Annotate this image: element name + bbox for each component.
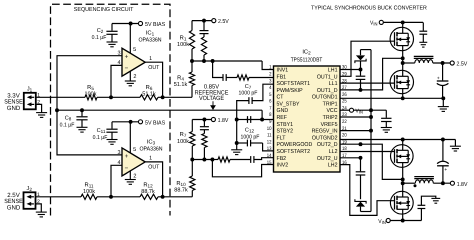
svg-text:OUTGND2: OUTGND2: [312, 135, 338, 141]
wire L2 to 1.8V out: [433, 182, 450, 184]
IC2 pin names: [277, 68, 338, 169]
transistor Q1 high-side ch1: [390, 27, 413, 50]
op-amp IC1 triangle: [122, 48, 145, 76]
capacitor C12 series: [246, 116, 262, 123]
wire pin20 rail ch2: [340, 139, 455, 141]
svg-text:2: 2: [269, 72, 272, 78]
pin 2 ground IC1: [130, 71, 136, 81]
wire IC3 output: [145, 162, 162, 197]
svg-text:C7: C7: [245, 84, 252, 90]
wire FB2 branch: [212, 159, 218, 161]
label R7: [177, 132, 189, 145]
label R11: [83, 182, 95, 195]
svg-text:3: 3: [269, 78, 272, 84]
wire phase1 to L1: [403, 62, 415, 64]
svg-text:STBY2: STBY2: [277, 129, 294, 135]
svg-text:R12: R12: [143, 182, 153, 188]
capacitor C2: [106, 24, 117, 43]
svg-text:13: 13: [267, 146, 272, 152]
capacitor bootstrap ch2: [356, 158, 366, 199]
node bootstrap bottom ch1: [359, 88, 363, 92]
terminal 5V BIAS bottom: [138, 119, 165, 126]
label R1: [177, 35, 189, 48]
wire 1.8V tap: [192, 119, 211, 121]
svg-text:51.1k: 51.1k: [174, 81, 188, 88]
label R6: [142, 85, 156, 98]
wire INV2 route: [212, 160, 273, 177]
label R4: [174, 75, 188, 88]
svg-text:0.1 µF: 0.1 µF: [60, 123, 75, 129]
wire FB1 branch down: [213, 61, 223, 78]
svg-text:VREF5: VREF5: [321, 122, 338, 128]
resistor R12: [140, 194, 158, 199]
svg-text:TYPICAL SYNCHRONOUS BUCK CONVE: TYPICAL SYNCHRONOUS BUCK CONVERTER: [311, 6, 427, 12]
svg-text:22: 22: [342, 119, 347, 125]
ground rail ch2: [450, 140, 461, 152]
svg-text:R11: R11: [85, 182, 94, 188]
svg-text:5V_STBY: 5V_STBY: [277, 102, 300, 108]
svg-text:5V BIAS: 5V BIAS: [145, 119, 165, 126]
node stray L2: [414, 184, 417, 187]
terminal 2.5V tap: [212, 18, 229, 25]
node RC branch 2 top: [202, 118, 206, 122]
RC branch resistor top: [201, 37, 206, 61]
ground J2: [36, 212, 47, 217]
svg-text:88.7k: 88.7k: [141, 188, 155, 195]
svg-text:VIN: VIN: [356, 108, 363, 114]
svg-text:GND: GND: [7, 204, 21, 211]
svg-text:OUTGND1: OUTGND1: [312, 95, 338, 101]
svg-text:1: 1: [149, 56, 152, 62]
wire divider node 2: [192, 159, 212, 161]
svg-text:OPA336N: OPA336N: [138, 37, 161, 44]
svg-text:TRIP2: TRIP2: [323, 115, 338, 121]
node REG5V_IN: [369, 129, 373, 133]
IC2 pin numbers: [267, 65, 347, 166]
label IC3: [139, 139, 162, 153]
svg-text:OPA336N: OPA336N: [139, 146, 162, 153]
svg-text:CT: CT: [277, 95, 284, 101]
terminal 1.8V tap: [211, 117, 228, 124]
wire 5V bias rail IC3: [112, 121, 138, 123]
svg-text:8: 8: [269, 112, 272, 118]
node bootstrap top ch1: [359, 68, 363, 72]
capacitor bootstrap ch1: [356, 70, 366, 90]
ground output ch1: [438, 98, 449, 111]
wire V_IN top rail: [384, 21, 423, 23]
terminal V_IN top: [370, 20, 383, 26]
label TYPICAL SYNCHRONOUS BUCK CONVERTER: [311, 6, 427, 12]
wire Q3 source: [402, 167, 404, 179]
label R12: [141, 182, 155, 195]
svg-text:FB2: FB2: [277, 156, 287, 162]
svg-text:7: 7: [269, 105, 272, 111]
diode D2 schottky: [355, 199, 366, 211]
svg-text:100k: 100k: [177, 138, 189, 145]
pin label 3 IC1: [117, 51, 120, 57]
svg-text:INV1: INV1: [277, 68, 289, 74]
label IC1: [138, 30, 161, 44]
capacitor FB2 series: [251, 156, 254, 163]
node pin5 IC1: [129, 22, 133, 26]
transistor Q4 high-side ch2: [390, 191, 413, 214]
svg-text:SEQUENCING CIRCUIT: SEQUENCING CIRCUIT: [74, 7, 134, 13]
wire Q2 drain: [402, 63, 404, 70]
svg-text:0.1 µF: 0.1 µF: [93, 135, 108, 141]
terminal V_IN bottom: [378, 218, 390, 225]
svg-text:J2: J2: [27, 186, 33, 192]
svg-text:+: +: [125, 53, 129, 60]
wire FB1 cap to resistor: [226, 77, 237, 79]
wire 2.5V tap: [192, 20, 212, 22]
node Q1 drain: [401, 20, 405, 24]
wire gnd node column: [236, 120, 238, 150]
svg-text:OUT: OUT: [148, 65, 160, 71]
svg-text:6: 6: [269, 99, 272, 105]
wire pin18 LL2 to Q3 gate: [340, 151, 395, 153]
pin 2 ground IC3: [130, 171, 136, 180]
wire IC1 output: [145, 62, 162, 97]
resistor R5: [85, 95, 97, 100]
terminal 1.8V out: [450, 181, 467, 188]
ground C8: [77, 127, 88, 132]
wire 0.85V reference rail: [57, 109, 262, 111]
IC U2 TPS51120DBT body: [274, 66, 341, 172]
pin label 3 IC3: [117, 150, 120, 156]
pin24 VCC terminal: [340, 108, 363, 114]
wire pin16 LH2 gate route: [340, 165, 395, 216]
capacitor V_IN ch2: [418, 196, 436, 220]
svg-text:100k: 100k: [177, 41, 189, 48]
node RC branch bottom: [202, 59, 206, 63]
wire pin17 OUT2_U: [340, 157, 361, 159]
svg-text:OUT1_U: OUT1_U: [317, 74, 338, 80]
wire R11 to R12: [97, 196, 140, 198]
wire phase2 to L2: [403, 182, 416, 184]
node VCC REG5V junction: [369, 108, 373, 112]
wire L1 to 2.5V out: [433, 62, 450, 64]
svg-text:OUT: OUT: [148, 165, 160, 171]
node phase2 a: [401, 177, 405, 181]
svg-text:51.1k: 51.1k: [142, 91, 156, 98]
wire Q4 drain: [402, 214, 404, 220]
svg-text:R7: R7: [180, 132, 187, 138]
svg-text:4: 4: [269, 85, 272, 91]
svg-text:VOLTAGE: VOLTAGE: [199, 95, 224, 102]
svg-text:1: 1: [269, 65, 272, 71]
svg-text:VIN: VIN: [378, 219, 385, 225]
svg-text:5: 5: [269, 92, 272, 98]
node TRIP2 REG5V: [369, 115, 373, 119]
svg-text:2.5V: 2.5V: [218, 18, 229, 25]
wire 5V bias rail IC1: [112, 23, 138, 25]
ground V_IN cap ch2: [431, 198, 440, 203]
node Q2 source gnd: [401, 96, 405, 100]
label C8: [60, 116, 75, 129]
svg-text:REF: REF: [277, 115, 288, 121]
wire pin26 ground line: [340, 97, 443, 99]
node C8 junction: [80, 108, 84, 112]
wire VCC to bypass cap: [354, 109, 387, 111]
wire Q4 source: [402, 183, 404, 191]
resistor FB1 series: [237, 75, 249, 80]
svg-text:J1: J1: [27, 87, 33, 93]
svg-text:SOFTSTART2: SOFTSTART2: [277, 149, 311, 155]
resistor R7: [190, 120, 195, 160]
svg-text:0.1 µF: 0.1 µF: [92, 35, 107, 41]
wire ref jog to pin8: [262, 110, 273, 119]
connector J2: [24, 186, 41, 209]
node output cap ch2: [441, 181, 445, 185]
ground IC3: [125, 180, 136, 185]
wire J2 pin1 to R11: [36, 196, 82, 198]
label C11: [93, 128, 108, 141]
svg-text:+: +: [437, 77, 440, 82]
svg-text:11: 11: [267, 133, 272, 139]
node phase1 b: [401, 61, 405, 65]
wire pin19 phase2 route: [340, 144, 403, 179]
label 3.3V SENSE GND: [4, 93, 23, 112]
svg-text:GND: GND: [7, 105, 21, 112]
ground reference caps: [231, 150, 242, 155]
wire J2 pin2 to ground: [36, 204, 42, 212]
op-amp IC3 triangle: [122, 148, 145, 176]
wire D1 anode to REG5V rail: [361, 49, 372, 51]
svg-text:C12: C12: [245, 128, 255, 134]
wire FB2 res to cap: [230, 159, 250, 161]
terminal 5V BIAS top: [138, 21, 165, 28]
connector J1: [24, 87, 41, 110]
wire R5 to R6: [97, 96, 140, 98]
svg-text:20: 20: [342, 133, 347, 139]
svg-text:TRIP1: TRIP1: [323, 102, 338, 108]
svg-text:5V BIAS: 5V BIAS: [145, 21, 165, 28]
svg-text:100k: 100k: [83, 188, 95, 195]
wire FB1 to pin2: [249, 77, 274, 79]
node Q4 drain: [401, 219, 405, 223]
svg-text:INV2: INV2: [277, 163, 289, 169]
label R10: [174, 181, 188, 194]
ground C2: [107, 42, 118, 47]
pin label 1 OUT IC3: [148, 156, 160, 171]
svg-text:C8: C8: [65, 116, 72, 122]
svg-text:R6: R6: [146, 85, 153, 91]
svg-text:TPS51120DBT: TPS51120DBT: [291, 57, 323, 64]
ground IC1: [125, 81, 136, 86]
node RC branch top: [202, 19, 206, 23]
wire SOFTSTART1 jog: [252, 84, 273, 100]
node phase2 b: [401, 181, 405, 185]
node FB1 branch: [211, 59, 215, 63]
wire FB2 to pin14: [254, 158, 274, 160]
node outcap gnd ch1: [441, 96, 445, 100]
ground VCC bypass: [381, 128, 392, 133]
svg-text:25: 25: [342, 99, 347, 105]
label IC2: [291, 49, 323, 64]
node C7 C12 junction: [235, 118, 239, 122]
wire IC3 noninverting input: [57, 110, 122, 155]
node boot ch2 on pin19: [359, 142, 363, 146]
label SEQUENCING CIRCUIT: [74, 7, 134, 13]
capacitor C8: [76, 110, 87, 127]
svg-text:C11: C11: [97, 128, 106, 134]
label C2: [92, 28, 107, 41]
RC branch capacitor top: [200, 21, 209, 37]
label 2.5V SENSE GND: [4, 192, 23, 211]
wire IC1 noninverting input: [57, 56, 122, 110]
svg-text:OUT2_D: OUT2_D: [317, 142, 338, 148]
wire R12 to R10 bottom: [158, 196, 192, 198]
wire IC3 inverting input: [111, 165, 122, 197]
svg-text:VCC: VCC: [326, 108, 337, 114]
svg-text:2: 2: [133, 74, 136, 80]
node RC branch 2 bottom: [202, 158, 206, 162]
RC branch capacitor bottom: [200, 120, 209, 134]
node outcap rail ch2: [441, 138, 445, 142]
svg-text:26: 26: [342, 92, 347, 98]
svg-text:R10: R10: [176, 181, 186, 187]
resistor R10: [190, 160, 195, 197]
inductor L1: [414, 56, 434, 63]
svg-text:1.8V: 1.8V: [218, 117, 229, 124]
node Q3 drain rail: [401, 138, 405, 142]
wire REG5V vertical rail: [370, 50, 372, 212]
pin 5 supply IC1: [130, 24, 136, 54]
svg-text:1: 1: [149, 156, 152, 162]
svg-text:LL2: LL2: [329, 149, 338, 155]
wire Q2 source: [402, 94, 404, 99]
wire Q3 drain to rail: [402, 140, 404, 145]
svg-text:LH2: LH2: [328, 163, 338, 169]
label 0.85V REFERENCE VOLTAGE: [195, 84, 229, 102]
transistor Q2 low-side ch1: [390, 70, 413, 93]
svg-text:12: 12: [267, 139, 272, 145]
wire C7 left leg: [237, 101, 249, 120]
wire R6 to R4 bottom: [158, 96, 192, 98]
svg-text:GND: GND: [277, 108, 289, 114]
wire pin28 LL1 to Q2 gate: [340, 82, 395, 84]
resistor R11: [81, 194, 97, 199]
wire C12 to gnd node: [237, 119, 248, 121]
wire D2 anode to REG5V rail: [361, 211, 372, 213]
ground J1: [36, 113, 47, 118]
wire pin29 gate route: [340, 41, 395, 76]
pin label 4 IC3: [117, 160, 120, 166]
capacitor FB1 series: [223, 74, 226, 81]
resistor R4: [189, 61, 194, 97]
svg-text:88.7k: 88.7k: [174, 186, 188, 193]
wire pin27 phase route: [340, 58, 403, 90]
diode D1 schottky: [355, 50, 366, 70]
ground V_IN cap ch1: [419, 42, 427, 47]
svg-text:R4: R4: [177, 75, 184, 81]
svg-text:FLT: FLT: [277, 135, 286, 141]
pin 5 supply IC3: [130, 122, 136, 153]
RC branch resistor bottom: [202, 134, 207, 160]
resistor FB2 series: [218, 157, 230, 162]
svg-text:9: 9: [269, 119, 272, 125]
inductor L2: [414, 177, 434, 184]
capacitor VCC bypass: [381, 110, 391, 127]
svg-text:OUT2_U: OUT2_U: [317, 156, 338, 162]
svg-text:2: 2: [133, 174, 136, 180]
svg-text:SOFTSTART1: SOFTSTART1: [277, 81, 311, 87]
svg-text:15: 15: [267, 160, 272, 166]
node divider R1 R4: [190, 59, 194, 63]
capacitor V_IN ch1: [419, 22, 427, 42]
svg-text:−: −: [125, 65, 129, 72]
wire Q1 drain stub: [402, 22, 404, 27]
terminal 2.5V out: [450, 61, 467, 68]
node divider R7 R10: [190, 158, 194, 162]
svg-text:FB1: FB1: [277, 74, 287, 80]
svg-text:5: 5: [133, 147, 136, 153]
svg-text:R1: R1: [180, 35, 187, 41]
svg-text:2.5V: 2.5V: [457, 61, 468, 68]
node bootstrap top ch2: [359, 156, 363, 160]
wire divider node 1: [192, 60, 262, 62]
wire pin30 LH1: [340, 69, 361, 71]
capacitor output ch1 electrolytic: [437, 63, 449, 98]
svg-text:PWM/SKIP: PWM/SKIP: [277, 87, 303, 94]
node IC3 output feedback: [161, 195, 165, 199]
svg-text:LL1: LL1: [329, 81, 338, 87]
label C12: [241, 128, 260, 141]
wire J1 pin1 to R5: [36, 96, 85, 98]
svg-text:100k: 100k: [85, 91, 97, 98]
label C7: [239, 84, 258, 97]
node inverting input IC3: [109, 195, 113, 199]
svg-text:+: +: [444, 168, 447, 173]
arrow reference voltage: [210, 101, 216, 110]
svg-text:−: −: [125, 165, 129, 172]
svg-text:VIN: VIN: [370, 21, 377, 27]
svg-text:C2: C2: [97, 28, 104, 34]
svg-text:10: 10: [267, 126, 272, 132]
wire V_IN bottom rail: [391, 220, 422, 222]
svg-text:R5: R5: [87, 85, 94, 91]
svg-text:1.8V: 1.8V: [457, 181, 468, 188]
wire IC1 inverting input: [111, 65, 122, 97]
transistor Q3 low-side ch2: [391, 145, 414, 168]
capacitor C11: [106, 122, 117, 140]
svg-text:POWERGOOD: POWERGOOD: [277, 142, 313, 148]
node REF junction: [260, 118, 264, 122]
svg-text:OUT1_D: OUT1_D: [317, 88, 338, 94]
node pin5 IC3: [129, 120, 133, 124]
wire J1 pin2 to ground: [36, 104, 42, 112]
node output cap ch1: [441, 61, 445, 65]
ground C11: [107, 140, 118, 145]
wire INV1 jog: [262, 61, 273, 70]
node IC1 output feedback: [161, 95, 165, 99]
svg-text:LH1: LH1: [328, 68, 338, 74]
svg-text:STBY1: STBY1: [277, 122, 294, 128]
pin label 1 OUT IC1: [148, 56, 160, 71]
node inverting input IC1: [109, 95, 113, 99]
wire softstart2 jog: [263, 143, 274, 151]
svg-text:+: +: [125, 153, 129, 160]
node FB2 branch: [210, 158, 214, 162]
svg-text:5: 5: [133, 47, 136, 53]
dashed box sequencing circuit: [51, 4, 171, 215]
svg-text:14: 14: [267, 153, 272, 159]
capacitor C13 softstart2: [237, 140, 263, 147]
svg-text:1000 pF: 1000 pF: [239, 91, 258, 97]
pin label 4 IC1: [117, 60, 120, 66]
node ref rail left: [55, 108, 59, 112]
capacitor C7: [249, 97, 252, 104]
